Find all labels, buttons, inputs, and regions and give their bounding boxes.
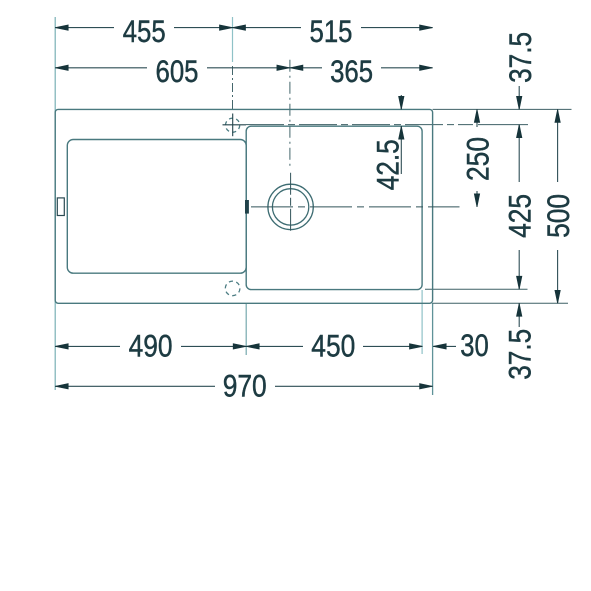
- double arrow 455/515: [220, 25, 233, 30]
- svg-text:605: 605: [156, 54, 199, 89]
- extension line divider x=246.2 bottom: [245, 303, 247, 355]
- dimension line row2 y=67.8 (605/365): [55, 67, 147, 69]
- dimension 42.5 x=401.3: [400, 95, 402, 109]
- svg-text:455: 455: [123, 14, 166, 49]
- svg-text:970: 970: [223, 369, 267, 404]
- dimension 37.5 top x=519.2: [518, 86, 520, 109]
- dimension 37.5 bottom x=519.2: [518, 303, 520, 327]
- arrow right 450: [410, 344, 423, 349]
- extension top edge right y=109.4: [433, 108, 572, 110]
- bowl: [246, 126, 422, 289]
- tap hole cross horizontal: [223, 124, 247, 126]
- arrow left 605: [55, 65, 68, 70]
- arrow left 455: [55, 25, 68, 30]
- svg-text:365: 365: [330, 54, 373, 89]
- svg-text:37.5: 37.5: [503, 329, 538, 380]
- svg-text:250: 250: [460, 137, 495, 181]
- centerline tap vertical dash: [232, 66, 234, 111]
- drain centerline horizontal: [251, 206, 460, 208]
- extension line bowl right x=422.1 bottom: [421, 290, 423, 354]
- arrow left 30: [433, 344, 446, 349]
- divider tick: [245, 200, 249, 214]
- sink outer rim: [55, 109, 432, 303]
- arrow right 365: [420, 65, 433, 70]
- extension bottom edge right y=303.3: [433, 302, 568, 304]
- svg-text:500: 500: [541, 194, 576, 238]
- drain outer circle: [268, 184, 313, 229]
- bottom hole dashed circle: [225, 281, 240, 296]
- arrow left 490: [55, 344, 68, 349]
- drainer board: [67, 140, 246, 274]
- dimension 500 vertical x=557.6: [557, 109, 559, 182]
- svg-text:30: 30: [460, 328, 489, 363]
- extension line tap centre x=232.5 top: [232, 17, 234, 62]
- arrow right 970: [420, 384, 433, 389]
- dimension 425 vertical x=519.2: [518, 125, 520, 182]
- extension line right edge x=432.6 bottom: [432, 303, 434, 395]
- tap hole cross vertical: [232, 114, 234, 137]
- dimension 250 vertical x=477: [476, 109, 478, 127]
- svg-text:37.5: 37.5: [503, 32, 538, 83]
- dimension line row3 y=346.4 (490/450/30): [55, 345, 120, 347]
- drain inner circle: [272, 189, 308, 225]
- tap hole dashed circle: [226, 118, 240, 132]
- left rim notch: [57, 198, 64, 216]
- dimension line row4 y=386.3 (970): [55, 385, 215, 387]
- arrow right 515: [420, 25, 433, 30]
- centerline bowl vertical dash x=289.9: [289, 60, 291, 166]
- arrow left 970: [55, 384, 68, 389]
- svg-text:450: 450: [311, 329, 355, 364]
- dimension line row1 y=27.6 (455/515): [55, 27, 114, 29]
- svg-text:425: 425: [503, 194, 538, 238]
- centerline tap horizontal dash-dot y=124.6: [246, 124, 473, 126]
- svg-text:490: 490: [129, 329, 173, 364]
- double arrow 490/450: [233, 344, 246, 349]
- extension bowl bottom right y=288.9: [425, 288, 528, 290]
- drain centerline vertical: [290, 173, 292, 232]
- svg-text:42.5: 42.5: [371, 139, 406, 190]
- svg-text:515: 515: [310, 14, 353, 49]
- double arrow 605/365: [277, 65, 290, 70]
- extension line left edge x=55.2: [54, 17, 56, 390]
